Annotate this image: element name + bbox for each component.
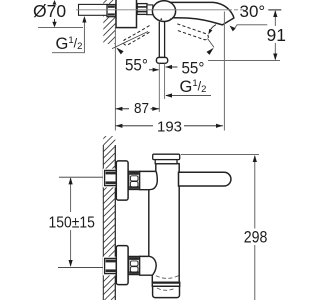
dimension 91 xyxy=(268,9,281,11)
lever end cap (top view) xyxy=(156,57,167,63)
outlet mousseur xyxy=(153,286,180,297)
55° arrow to shaft left xyxy=(149,69,159,71)
dashed internal arcs in body bottom xyxy=(156,276,179,279)
dots on dome xyxy=(160,18,162,20)
svg-text:298: 298 xyxy=(244,229,268,247)
upper connection centerline xyxy=(59,176,105,178)
spacer between nut and body (top view) xyxy=(147,5,153,15)
cap disc 1 xyxy=(153,154,180,159)
dashed lever position left (55°) xyxy=(123,26,151,46)
extension line at spout tip xyxy=(223,12,225,131)
svg-text:55°: 55° xyxy=(182,60,205,78)
upper G1/2 nipple halo xyxy=(103,169,118,188)
G1/2 nipple hex nut (top view) xyxy=(107,5,116,17)
escutcheon (top view) xyxy=(116,0,137,28)
wall face extension line (top view) xyxy=(114,28,116,131)
horizontal thin line right of 55° to 91 dim xyxy=(208,60,280,62)
thin 55° line left + arrow xyxy=(112,32,148,49)
upper union nut xyxy=(129,171,140,189)
wall hatching (side view) xyxy=(98,120,122,300)
swivel arc arrow under spout xyxy=(209,25,216,32)
lower connection centerline xyxy=(58,266,105,268)
faucet body (side view) xyxy=(149,164,179,283)
Ø70 dimension arrows xyxy=(53,0,57,5)
dimension 298 xyxy=(181,153,259,155)
outlet band xyxy=(152,282,179,286)
lower G1/2 nipple halo xyxy=(103,257,118,276)
lower D elbow xyxy=(140,256,153,275)
union hex nut (top view) xyxy=(137,4,147,15)
svg-text:193: 193 xyxy=(157,119,182,136)
svg-text:30°: 30° xyxy=(240,2,266,21)
dimension 87 xyxy=(115,108,129,110)
dashed lever position right (55°) xyxy=(176,24,208,40)
upper D elbow xyxy=(140,171,156,189)
G 1/2 leader top-left xyxy=(52,18,84,53)
55° arrow to shaft right xyxy=(166,66,178,68)
cap disc 2 xyxy=(155,160,177,164)
svg-text:91: 91 xyxy=(267,25,286,45)
upper escutcheon xyxy=(116,161,128,200)
upper G1/2 nipple in wall xyxy=(105,170,117,185)
dimension 150±15 xyxy=(70,178,72,212)
handle dome circle (top view) xyxy=(152,1,175,22)
lower G1/2 nipple in wall xyxy=(105,258,117,273)
lower escutcheon xyxy=(116,246,128,285)
wall lines (side view) xyxy=(102,145,104,300)
Ø70 extension line (escutcheon bottom level) xyxy=(38,27,83,29)
centerline of faucet axis (top view) xyxy=(76,9,232,11)
dimension 193 xyxy=(115,125,153,127)
G1/2 nipple tube in wall (top view) xyxy=(79,4,108,15)
lever shaft (top view, pointing toward viewer) xyxy=(159,22,164,58)
lower union nut xyxy=(129,256,140,274)
wall hatching (top view) xyxy=(98,0,122,67)
svg-text:55°: 55° xyxy=(125,57,148,75)
spout tube (top view) xyxy=(170,2,234,25)
svg-text:87: 87 xyxy=(134,100,149,117)
thin 55° line right + arrow xyxy=(208,39,215,48)
svg-text:Ø70: Ø70 xyxy=(33,1,66,21)
svg-text:150±15: 150±15 xyxy=(49,214,95,232)
lever extension lines down xyxy=(158,64,160,112)
G 1/2 leader center xyxy=(166,95,211,97)
lever pill (side view) xyxy=(179,172,231,186)
30° leader xyxy=(234,25,267,30)
